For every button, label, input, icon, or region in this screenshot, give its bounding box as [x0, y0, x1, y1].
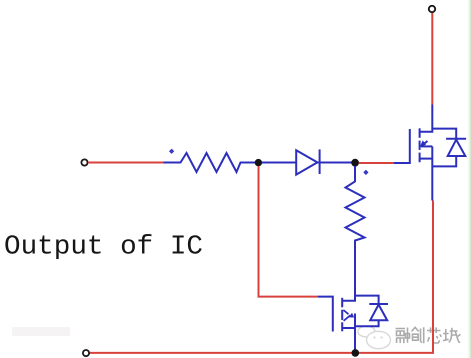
- Q1 body arrow (pointing left into channel): [422, 141, 428, 146]
- wire: red source net of Q1 down right side to bottom rail: [90, 201, 434, 353]
- n-channel MOSFET Q2 (low-side, gate lead top-left, arrow pointing right): [318, 282, 388, 353]
- Q1 channel segment (middle): [419, 141, 421, 150]
- Q1 channel segment (top): [419, 128, 421, 138]
- wire: red drain net, top terminal down to Q1 drain: [431, 13, 433, 105]
- glyph xin: [427, 327, 441, 343]
- Q2 source stub: [342, 327, 355, 329]
- Q1 source stub: [420, 158, 433, 160]
- Q1 gate lead and gate bar: [394, 129, 410, 163]
- svg-text:Output of IC: Output of IC: [4, 233, 203, 263]
- diode D1 (blue, anode left, cathode bar right): [296, 149, 352, 174]
- Q2 channel segment (middle): [341, 310, 343, 320]
- Q2 gate lead and gate bar: [318, 297, 333, 332]
- wire: red gate net of Q2, from node A down and right: [259, 166, 319, 297]
- Q2 body diode (cathode bar up, anode down): [355, 296, 379, 304]
- glyph cheng: [443, 328, 460, 343]
- n-channel MOSFET Q1 (high-side, gate lead bottom-left, arrow pointing left): [394, 105, 466, 201]
- junction node C (Q2 source on bottom rail): [352, 349, 360, 357]
- junction node B (D1 cathode / R2 / gate net of Q1): [351, 159, 359, 167]
- watermark text: rong chuang xin cheng: [396, 327, 461, 343]
- Q1 body diode (cathode bar up, anode down): [432, 129, 456, 139]
- glyph rong: [396, 328, 410, 344]
- wire: input net, red, left terminal to resistor R1: [88, 162, 164, 164]
- Q2 drain lead from R2 and drain stub: [342, 282, 355, 301]
- resistor R2 (vertical, blue zigzag) from node B down to Q2 drain: [346, 166, 368, 282]
- port P_BOT (bottom left terminal): [83, 350, 89, 356]
- port P_IN (left input terminal): [81, 159, 87, 165]
- glyph chuang: [412, 327, 424, 343]
- Q2 source-side vertical lead down to rail: [354, 314, 356, 353]
- resistor R1 (horizontal, blue zigzag) with left/right leads: [164, 149, 297, 172]
- wire: red gate net from node B to Q1 gate: [359, 162, 394, 164]
- watermark logo (gray cloud / panda): [358, 326, 391, 349]
- port P_TOP (top output terminal): [429, 6, 435, 12]
- Q2 body arrow (pointing right): [343, 310, 348, 314]
- Q2 channel segment (top): [341, 298, 343, 308]
- Q1 drain stub and drain lead: [420, 105, 433, 132]
- Q1 channel segment (bottom): [419, 153, 421, 163]
- Q1 source-side vertical lead: [431, 146, 433, 200]
- junction node A (R1 / D1 / gate net of Q2): [255, 159, 262, 166]
- Q2 channel segment (bottom): [341, 322, 343, 331]
